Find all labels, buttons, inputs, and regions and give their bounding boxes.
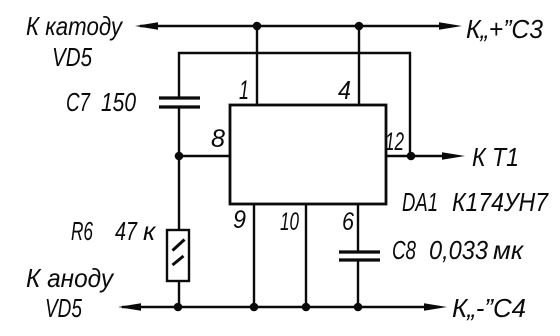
wire R6 bottom bbox=[178, 280, 180, 308]
wire C7 bottom bbox=[178, 106, 180, 157]
svg-text:R6: R6 bbox=[71, 216, 93, 246]
arrow to K anodu (left) bbox=[118, 303, 141, 311]
junction node pin12 bbox=[407, 152, 416, 161]
op-amp IC DA1 body bbox=[230, 105, 386, 204]
wire pin 4 vertical bbox=[358, 26, 360, 106]
svg-text:6: 6 bbox=[342, 208, 354, 236]
wire pin 1 vertical bbox=[256, 26, 258, 106]
svg-text:4: 4 bbox=[338, 75, 351, 105]
wire pin 12 bbox=[385, 155, 444, 157]
capacitor C8 bbox=[339, 252, 380, 260]
svg-text:VD5: VD5 bbox=[52, 42, 92, 72]
junction node bottom R6 bbox=[174, 303, 183, 312]
junction node pin8/C7/R6 bbox=[175, 152, 184, 161]
wire C7 top to pin 12 node bbox=[179, 53, 410, 156]
svg-text:К„+”С3: К„+”С3 bbox=[466, 14, 544, 44]
wire bottom rail bbox=[122, 306, 425, 308]
wire C8 bottom bbox=[357, 259, 359, 308]
wire pin 10 bbox=[305, 204, 307, 308]
svg-text:47: 47 bbox=[115, 216, 138, 246]
svg-text:К Т1: К Т1 bbox=[472, 142, 519, 172]
arrow to K - C4 (right) bbox=[424, 303, 447, 311]
capacitor C7 bbox=[159, 98, 200, 107]
wire top rail bbox=[140, 25, 444, 27]
junction node bottom pin9 bbox=[250, 303, 259, 312]
junction node bottom pin10 bbox=[302, 303, 311, 312]
junction node top pin4 bbox=[355, 22, 364, 31]
svg-text:10: 10 bbox=[280, 208, 299, 236]
svg-text:мк: мк bbox=[493, 235, 525, 265]
wire pin 6 to C8 bbox=[357, 204, 359, 253]
svg-text:К„-”С4: К„-”С4 bbox=[452, 293, 526, 323]
arrow to K + C3 (right) bbox=[439, 22, 462, 30]
svg-text:С7: С7 bbox=[66, 87, 91, 117]
junction node top pin1 bbox=[253, 22, 262, 31]
junction node bottom C8 bbox=[354, 303, 363, 312]
resistor R6 bbox=[167, 230, 189, 281]
svg-text:150: 150 bbox=[101, 87, 136, 117]
arrow to K T1 (right) bbox=[442, 152, 465, 160]
svg-text:К аноду: К аноду bbox=[26, 263, 115, 293]
svg-text:1: 1 bbox=[239, 75, 249, 105]
svg-text:VD5: VD5 bbox=[45, 293, 82, 323]
wire R6 top bbox=[178, 156, 180, 231]
svg-text:9: 9 bbox=[233, 206, 246, 234]
svg-text:К катоду: К катоду bbox=[26, 11, 124, 41]
svg-text:С8: С8 bbox=[392, 235, 416, 265]
arrow to K katodu (left) bbox=[135, 22, 158, 30]
svg-text:к: к bbox=[143, 216, 157, 246]
svg-text:0,033: 0,033 bbox=[429, 235, 488, 265]
svg-text:К174УН7: К174УН7 bbox=[452, 187, 549, 217]
wire pin 9 bbox=[253, 204, 255, 308]
svg-text:12: 12 bbox=[385, 128, 404, 156]
svg-text:8: 8 bbox=[211, 125, 225, 153]
svg-text:DA1: DA1 bbox=[402, 187, 438, 217]
wire pin 8 bbox=[179, 155, 231, 157]
